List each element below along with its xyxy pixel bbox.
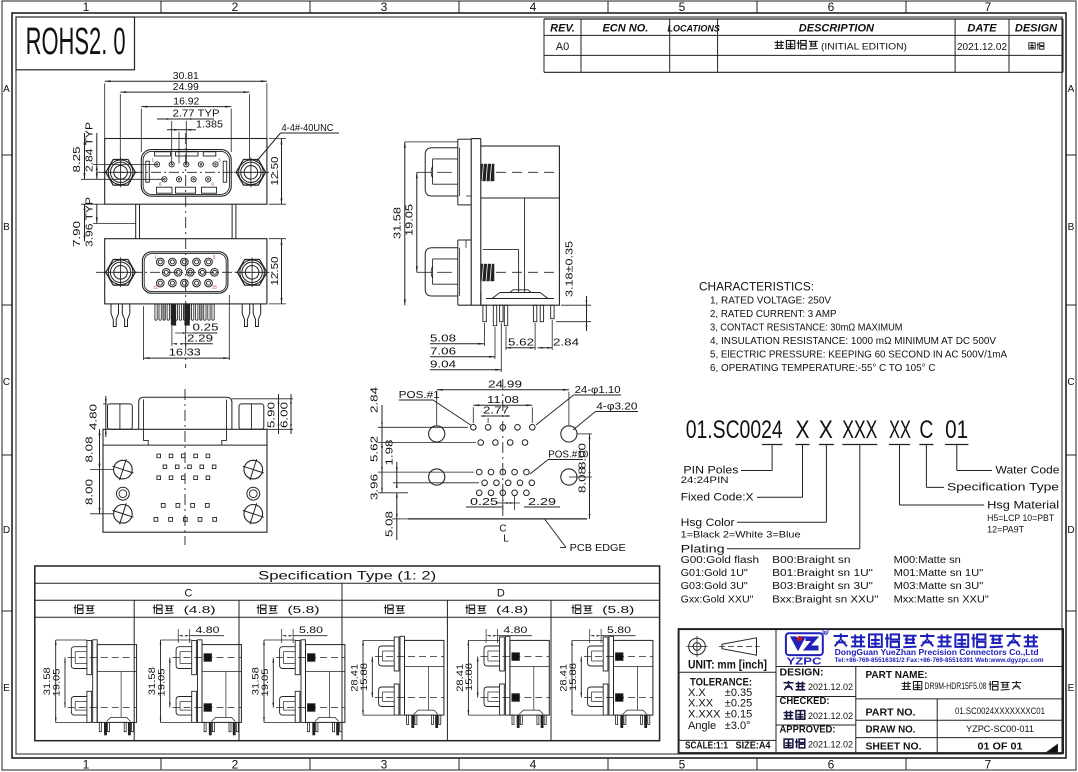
mini centerlines [68,658,137,708]
svg-text:2021.12.02: 2021.12.02 [957,42,1007,53]
mini screw heads [71,647,87,715]
svg-text:(5.8): (5.8) [602,605,634,616]
svg-text:6: 6 [828,0,835,14]
svg-text:Specification Type (1: 2): Specification Type (1: 2) [258,569,436,583]
pcb dimension 0.25 [466,496,503,510]
svg-text:B01:Braight sn 1U": B01:Braight sn 1U" [772,568,873,579]
mini side view dim 15.88 [568,657,582,698]
sheet no row [866,742,1058,753]
mini solder legs [512,715,546,728]
svg-text:(4.8): (4.8) [184,605,216,616]
side view body [481,146,560,305]
svg-text:1, RATED VOLTAGE: 250V: 1, RATED VOLTAGE: 250V [710,294,831,306]
svg-text:B03:Braight sn 3U": B03:Braight sn 3U" [772,581,873,592]
svg-text:24-φ1.10: 24-φ1.10 [575,384,621,396]
mini side view dim 15.88 [359,657,373,698]
svg-text:1.98: 1.98 [383,439,395,465]
svg-text:4, INSULATION RESISTANCE: 1000: 4, INSULATION RESISTANCE: 1000 mΩ MINIMU… [710,335,996,347]
projection symbol circle [687,636,708,657]
mini side view dim 19.05 [156,658,170,708]
svg-text:7.90: 7.90 [71,221,83,247]
svg-text:C: C [919,416,933,444]
svg-text:2.77: 2.77 [483,405,509,417]
svg-text:2021.12.02: 2021.12.02 [808,711,853,721]
dimension 8.08 top view [84,429,114,469]
pcb dimension 8.08 right rotated [577,467,591,519]
draw no row [866,724,1035,736]
svg-text:D: D [1067,525,1074,536]
svg-text:B: B [3,222,10,233]
top view right hex standoff [239,404,264,429]
svg-text:E: E [3,683,10,694]
mini centerlines [584,657,653,698]
top view centerline [184,389,186,545]
dimension 12.50 lower right [269,239,286,304]
mini dim 4.80 [178,625,224,643]
upper flange rectangle [105,139,267,205]
mini centerlines [480,657,549,698]
mini solder legs [204,722,238,735]
front view dimension 16.92 [141,95,231,152]
svg-text:SIZE:A4: SIZE:A4 [736,740,771,752]
pcb pads row1 [471,425,536,431]
vertical centerline front view [185,133,187,368]
svg-text:5: 5 [679,758,686,772]
svg-text:M03:Matte sn 3U": M03:Matte sn 3U" [894,581,984,592]
svg-text:4: 4 [530,0,537,14]
side view dimension 19.05 [404,172,433,272]
svg-text:X: X [796,416,810,444]
svg-text:DR9M-HDR15F5.08: DR9M-HDR15F5.08 [925,681,987,692]
dimension 2.84 side [538,320,580,350]
svg-text:M00:Matte sn: M00:Matte sn [894,555,961,566]
mini lock blocks [616,653,623,701]
svg-text:1: 1 [83,758,90,772]
mini side view dim 28.41 [559,640,604,715]
pcb dimension 3.96 rotated [369,472,409,500]
svg-text:24.99: 24.99 [488,379,522,391]
svg-text:19.05: 19.05 [156,669,167,697]
part number underlines [762,444,969,446]
front view dimension 2.77 TYP [157,108,220,164]
mini solder legs [616,715,650,728]
mini screw heads [379,646,395,707]
red pin number marks [152,158,222,290]
specification type table grid [35,566,660,741]
mini screw heads [484,646,500,707]
side view bottom bump [486,290,554,299]
tolerance block [688,677,752,733]
svg-text:2.29: 2.29 [528,496,556,508]
pcb pads row3 [476,469,529,475]
svg-text:SCALE:1:1: SCALE:1:1 [685,740,728,752]
DB9 male shell D-outline [141,150,231,197]
title block grid [679,629,1063,753]
svg-text:G03:Gold 3U": G03:Gold 3U" [681,581,749,592]
mini dim 5.80 [282,625,328,643]
mini side view body [510,640,549,715]
ROHS2.0 label box [16,17,135,70]
right board lock split pin [242,304,261,327]
characteristics text block [699,282,1007,374]
dimension 16.33 [143,295,229,360]
upper screw head [425,148,458,196]
mini bracket plates [603,636,613,715]
mini bracket plates [87,640,97,723]
lower threaded stud [481,264,494,282]
projection symbol cone [719,638,760,655]
svg-text:19.05: 19.05 [52,669,63,697]
mini screw heads [588,646,604,707]
front view dimension 30.81 [105,70,267,139]
mini side view dim 19.05 [260,658,274,708]
svg-text:3: 3 [381,758,388,772]
svg-text:CHECKED:: CHECKED: [780,696,830,707]
scale size row [685,740,771,752]
svg-text:16.92: 16.92 [173,95,199,107]
svg-text:UNIT: mm [inch]: UNIT: mm [inch] [688,660,767,672]
svg-text:4-4#-40UNC: 4-4#-40UNC [282,122,334,134]
side view face plate [458,139,481,306]
svg-text:3.96: 3.96 [369,474,381,500]
top view D-shell strip [139,397,232,429]
mini side view body [405,640,444,715]
svg-text:12.50: 12.50 [269,156,281,185]
svg-text:5: 5 [679,0,686,14]
side view inner box lower [483,249,519,292]
svg-text:Hsg Material: Hsg Material [987,500,1059,512]
mini bracket plates [295,640,305,723]
mini side view dim 31.58 [42,640,87,722]
svg-text:DESIGN:: DESIGN: [780,668,824,679]
company name chinese [834,633,1039,647]
svg-text:ECN NO.: ECN NO. [602,23,648,35]
svg-text:Gxx:Gold XXU": Gxx:Gold XXU" [681,594,754,605]
HD15 female shell [142,252,228,293]
svg-text:E: E [1068,683,1075,694]
upper threaded stud [481,164,494,182]
svg-text:2.84: 2.84 [553,337,579,349]
svg-text:7: 7 [985,0,992,14]
mini bracket plates [394,636,404,715]
DB9 pins row1 [155,162,219,167]
pcb label 4-dia3.20 [573,401,638,431]
svg-text:X: X [819,416,833,444]
dimension 2.29 front [172,326,213,346]
svg-text:Angle: Angle [688,720,716,732]
svg-text:SHEET NO.: SHEET NO. [866,742,922,753]
pcb dimension 2.29 [497,496,560,510]
pcb label 24-dia1.10 [536,384,621,425]
top view rivet screw heads [112,459,263,524]
svg-text:5.80: 5.80 [299,625,323,636]
svg-text:A: A [1068,84,1075,95]
top view main body [103,429,267,532]
HD15 holes row3 [157,279,213,287]
svg-text:C: C [3,377,10,388]
svg-text:C: C [184,588,192,600]
hsg material label [987,500,1059,536]
mini centerlines [173,658,242,708]
side view dimension 31.58 [392,142,459,305]
lower stud centerline [496,271,556,273]
dimension 9.04 side [430,323,501,372]
svg-text:REV.: REV. [550,23,575,35]
top view pad squares HD15 [157,454,216,479]
svg-text:B: B [1068,222,1075,233]
dimension 5.62 side [506,323,535,350]
svg-text:2021.12.02: 2021.12.02 [808,682,853,692]
svg-text:1.385: 1.385 [196,119,223,131]
left board lock split pin [111,304,130,327]
dimension 8.25 left [71,133,164,179]
dimension 3.18 right [556,241,591,331]
svg-text:8.00: 8.00 [577,443,589,469]
svg-text:C: C [1067,377,1074,388]
upper right hex jack screw [234,158,268,188]
svg-text:24.99: 24.99 [173,81,199,93]
svg-text:3.96 TYP: 3.96 TYP [84,197,96,247]
DB9 shell inner tabs [155,152,217,193]
mini dim 4.80 [486,625,532,643]
side view solder legs [483,305,554,326]
top view left hex standoff [108,404,133,429]
svg-text:H5=LCP 10=PBT: H5=LCP 10=PBT [987,513,1054,524]
pcb pads row2 [478,440,528,446]
hsg color label [681,517,801,541]
svg-text:01: 01 [945,416,968,444]
svg-text:CHARACTERISTICS:: CHARACTERISTICS: [699,282,814,294]
svg-text:9.04: 9.04 [430,359,456,371]
pcb dimension 5.62 rotated [369,436,475,472]
svg-text:POS.#1: POS.#1 [399,390,440,401]
dimension 7.06 side [430,327,495,359]
svg-text:15: 15 [212,285,218,290]
svg-text:4.80: 4.80 [88,404,100,430]
part no row [866,706,1046,719]
svg-text:Mxx:Matte sn XXU": Mxx:Matte sn XXU" [894,594,990,605]
svg-text:1: 1 [83,0,90,14]
svg-text:B00:Braight sn: B00:Braight sn [772,555,850,566]
svg-text:6: 6 [828,758,835,772]
pcb dimension 2.84 rotated [369,387,477,448]
svg-text:5.08: 5.08 [430,333,456,345]
mini side view body [202,645,241,723]
svg-text:A: A [3,84,10,95]
mini side view dim 15.88 [464,657,478,698]
mini lock blocks [308,654,315,711]
svg-text:15.88: 15.88 [464,663,475,691]
svg-text:5.08: 5.08 [383,511,395,537]
neck between connectors [136,204,236,239]
svg-text:31.58: 31.58 [392,207,404,239]
top view ring features [117,487,260,500]
dimension 5.08 side [430,323,485,346]
signatures and dates [784,681,854,750]
svg-text:±0.15: ±0.15 [725,709,752,721]
svg-text:2021.12.02: 2021.12.02 [808,740,853,750]
part number leader lines [727,445,992,549]
mini lock blocks [204,654,211,711]
mini side view body [614,640,653,715]
HD15 holes row1 [157,258,213,266]
pcb mounting holes 4x3.20 [429,426,577,485]
svg-text:5.62: 5.62 [369,436,381,462]
svg-text:DESCRIPTION: DESCRIPTION [799,23,875,35]
svg-text:G01:Gold 1U": G01:Gold 1U" [681,568,749,579]
front view dimension 24.99 [120,81,249,160]
company name english [835,647,1044,664]
pcb POS.#10 label [530,450,589,475]
svg-text:4-φ3.20: 4-φ3.20 [596,401,637,413]
svg-text:5.80: 5.80 [607,625,631,636]
svg-text:7.06: 7.06 [430,346,456,358]
spec table column headers [74,605,635,616]
svg-text:A0: A0 [556,41,569,53]
svg-text:19.05: 19.05 [260,669,271,697]
svg-text:2.84: 2.84 [369,387,381,413]
revision table [544,19,1063,72]
mini dim 5.80 [590,625,636,643]
svg-text:XXX: XXX [842,416,877,444]
upper left hex jack screw [103,158,138,188]
svg-text:6, OPERATING TEMPERATURE:-55°: 6, OPERATING TEMPERATURE:-55° C TO 105° … [710,362,936,374]
mini centerlines [276,658,345,708]
svg-text:2, RATED CURRENT: 3 AMP: 2, RATED CURRENT: 3 AMP [710,308,837,320]
label 4-4#-40UNC with leader [256,122,339,162]
svg-text:4.80: 4.80 [196,625,220,636]
svg-text:2.29: 2.29 [187,333,213,345]
top view pad squares DB9 [154,504,217,522]
lower bracket plate [458,240,471,305]
svg-text:2: 2 [232,0,239,14]
svg-text:01.SC0024: 01.SC0024 [686,416,783,444]
svg-text:(5.8): (5.8) [288,605,320,616]
svg-text:DongGuan YueZhan Precision Con: DongGuan YueZhan Precision Connectors Co… [835,647,1039,657]
svg-text:G00:Gold flash: G00:Gold flash [681,555,759,566]
mini screw heads [280,647,296,715]
svg-text:6.00: 6.00 [279,402,291,428]
lower left hex jack screw [103,258,138,288]
lower right hex jack screw [235,258,270,288]
svg-text:XX: XX [889,416,911,444]
svg-text:5.90: 5.90 [266,402,278,428]
svg-text:3.18±0.35: 3.18±0.35 [564,241,576,297]
upper bracket plate [458,139,471,205]
svg-text:12=PA9T: 12=PA9T [987,525,1024,536]
mini bracket plates [500,636,510,715]
svg-text:M01:Matte sn 1U": M01:Matte sn 1U" [894,568,984,579]
svg-text:YZPC-SC00-011: YZPC-SC00-011 [966,724,1034,735]
svg-text:8.00: 8.00 [84,479,96,505]
two long center pins [171,304,189,325]
svg-text:DESIGN: DESIGN [1015,23,1058,35]
mini solder legs [407,715,441,728]
mini centerlines [375,657,444,698]
lower screw head [425,248,458,296]
svg-text:5.62: 5.62 [508,337,534,349]
svg-text:0.25: 0.25 [470,496,498,508]
svg-text:19.05: 19.05 [404,204,416,236]
pcb pads row4 [482,480,535,486]
svg-text:LOCATIONS: LOCATIONS [668,24,720,34]
dimension 5.90 top view [232,394,293,434]
svg-text:Plating: Plating [681,544,725,556]
water code label [996,465,1060,477]
dimension 2.84 TYP left [84,122,157,179]
svg-text:16.33: 16.33 [169,347,201,359]
svg-text:ROHS2. 0: ROHS2. 0 [26,21,126,63]
svg-text:01.SC0024XXXXXXXC01: 01.SC0024XXXXXXXC01 [955,706,1045,717]
pin poles label [681,465,739,487]
svg-text:2: 2 [232,758,239,772]
svg-text:DRAW NO.: DRAW NO. [866,725,916,736]
part name row [866,670,1022,692]
pcb edge line [392,518,587,520]
mini side view dim 28.41 [350,640,395,715]
svg-text:24:24PIN: 24:24PIN [681,475,729,486]
svg-text:8.25: 8.25 [71,146,83,172]
pcb dimension 8.00 right rotated [569,434,592,477]
pcb POS.#1 label [399,390,471,425]
svg-text:Water Code: Water Code [996,465,1060,477]
svg-text:3: 3 [381,0,388,14]
fixed code label [681,492,755,504]
mini side view body [97,645,136,723]
svg-text:±3.0°: ±3.0° [725,720,751,732]
svg-text:1=Black 2=White 3=Blue: 1=Black 2=White 3=Blue [681,530,801,541]
svg-text:4.80: 4.80 [503,625,527,636]
svg-text:15.88: 15.88 [359,663,370,691]
pcb dimension 24.99 [437,379,569,426]
centerline CL symbol [499,524,509,545]
dimension 6.00 top view [267,394,293,434]
plating options table [681,555,990,605]
dimension 8.00 top view [84,470,114,514]
spec table titles [184,569,504,600]
upper stud centerline [496,171,556,173]
dimension 4.80 top view [88,396,108,437]
svg-text:Tel:+86-769-85516381/2 Fax:+8: Tel:+86-769-85516381/2 Fax:+86-769-85516… [835,657,1044,664]
pcb pads row5 [476,490,529,496]
unit label [688,660,767,672]
part number code [686,416,968,444]
svg-text:Specification Type: Specification Type [947,482,1059,494]
mini bracket plates [192,640,202,723]
dimension 0.25 [175,322,219,334]
svg-text:01 OF 01: 01 OF 01 [978,742,1023,753]
mini lock blocks [512,653,519,701]
svg-text:PART NAME:: PART NAME: [866,670,928,681]
svg-text:8.08: 8.08 [84,436,96,462]
solder pin comb [155,304,214,320]
dimension 12.50 upper right [269,139,286,205]
svg-text:4: 4 [530,758,537,772]
mini side view body [306,645,345,723]
lower centerline horizontal [96,271,276,273]
svg-text:3, CONTACT RESISTANCE: 30mΩ MA: 3, CONTACT RESISTANCE: 30mΩ MAXIMUM [710,321,903,333]
pcb dimension 2.77 [481,405,510,424]
svg-text:D: D [3,525,10,536]
mini screw heads [176,647,192,715]
pcb dimension 1.98 rotated [383,439,479,488]
company logo mark [786,629,828,667]
mini side view dim 31.58 [147,640,192,722]
svg-text:15.88: 15.88 [568,663,579,691]
svg-text:12.50: 12.50 [269,256,281,285]
DB9 pins row2 [162,177,211,182]
lower flange rectangle [105,239,267,304]
